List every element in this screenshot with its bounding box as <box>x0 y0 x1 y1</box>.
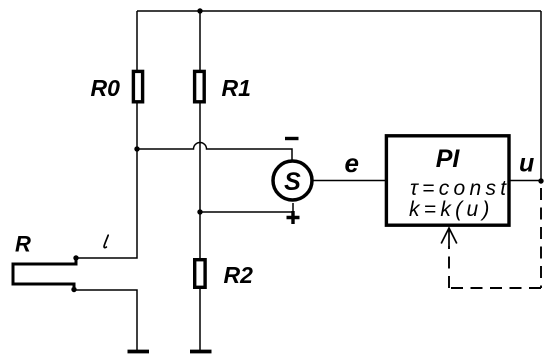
svg-text:k=k(u): k=k(u) <box>409 198 494 221</box>
wire R2 to ground <box>199 289 201 350</box>
arrow into PI bottom (gain adaptation) <box>441 228 457 246</box>
wire B from divider node to S bottom <box>200 203 293 212</box>
svg-text:R0: R0 <box>91 75 121 101</box>
wire sensor lower lead to ground <box>74 290 137 350</box>
svg-text:τ=const: τ=const <box>410 177 510 200</box>
summing element S circle <box>273 161 312 200</box>
wire R1-R2 middle branch <box>199 103 201 258</box>
wire R0 branch lower to sensor <box>77 103 137 258</box>
wire right vertical from top bus to u node <box>540 11 542 181</box>
svg-text:e: e <box>345 148 359 178</box>
minus sign at S top input <box>285 137 299 140</box>
resistor R0 body <box>133 71 142 101</box>
dashed feedback path: bottom horizontal run <box>449 287 541 289</box>
wire bridge A with hop over R1 branch, into S top <box>137 143 292 161</box>
node dot top bus / R1 <box>197 8 202 13</box>
wire top bus <box>137 10 541 12</box>
wire e: S output to PI input <box>312 180 386 182</box>
PI controller box U1 <box>386 136 509 225</box>
ground symbol right <box>190 350 212 354</box>
sensor R electrode probe <box>13 259 76 290</box>
svg-text:PI: PI <box>436 145 461 173</box>
resistor R1 body <box>195 71 205 101</box>
wire R0 branch upper <box>136 11 138 70</box>
label l displacement <box>104 235 108 247</box>
node dot u feedback tap <box>538 178 543 183</box>
svg-text:S: S <box>284 168 301 196</box>
node dot sensor lower terminal <box>71 287 76 292</box>
dashed feedback path: vertical drop from u node <box>540 188 542 288</box>
wire u: PI output to right vertical <box>509 180 541 182</box>
svg-text:R: R <box>15 232 31 257</box>
svg-text:R2: R2 <box>224 262 254 288</box>
node dot sensor upper terminal <box>73 255 78 260</box>
svg-text:R1: R1 <box>222 75 251 101</box>
plus sign at S bottom input <box>287 211 300 224</box>
ground symbol left <box>128 350 150 354</box>
node dot R0 / bridge A <box>134 146 139 151</box>
dashed feedback path: rise to arrow under PI <box>448 246 450 288</box>
node dot divider R1-R2 <box>197 209 202 214</box>
resistor R2 body <box>195 260 205 288</box>
svg-text:u: u <box>519 150 534 178</box>
wire R1 branch upper <box>199 11 201 70</box>
